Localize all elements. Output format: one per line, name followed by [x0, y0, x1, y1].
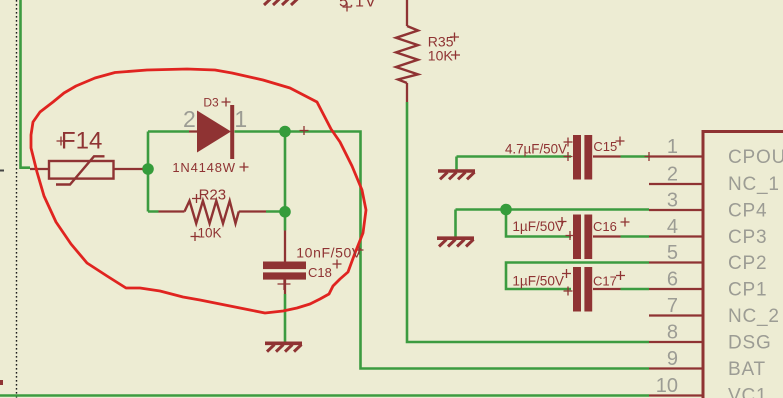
svg-text:CPOUT: CPOUT — [728, 147, 783, 168]
svg-text:C16: C16 — [593, 219, 617, 234]
svg-text:5.1V: 5.1V — [339, 0, 377, 10]
svg-text:BAT: BAT — [728, 359, 766, 380]
svg-text:C17: C17 — [593, 273, 617, 288]
svg-text:9: 9 — [667, 348, 678, 370]
svg-text:1µF/50V: 1µF/50V — [512, 219, 564, 234]
svg-text:1N4148W: 1N4148W — [172, 160, 235, 175]
svg-text:CP3: CP3 — [728, 227, 767, 248]
svg-text:10K: 10K — [198, 226, 222, 241]
svg-text:NC_2: NC_2 — [728, 306, 780, 327]
svg-text:C18: C18 — [308, 265, 332, 280]
svg-text:7: 7 — [667, 295, 678, 317]
svg-text:DSG: DSG — [728, 333, 772, 354]
svg-text:1: 1 — [234, 106, 247, 132]
svg-text:D3: D3 — [203, 96, 219, 110]
svg-text:10nF/50V: 10nF/50V — [296, 244, 362, 260]
svg-text:R23: R23 — [199, 187, 227, 204]
svg-text:8: 8 — [667, 322, 678, 344]
svg-text:F14: F14 — [61, 128, 102, 155]
svg-text:6: 6 — [667, 269, 678, 291]
svg-text:CP1: CP1 — [728, 280, 767, 301]
svg-text:3: 3 — [667, 190, 678, 212]
svg-text:5: 5 — [667, 242, 678, 264]
svg-text:CP4: CP4 — [728, 201, 767, 222]
svg-text:4: 4 — [667, 216, 678, 238]
svg-text:C15: C15 — [593, 139, 617, 154]
svg-text:CP2: CP2 — [728, 253, 767, 274]
svg-text:4.7µF/50V: 4.7µF/50V — [505, 142, 567, 157]
svg-text:10: 10 — [656, 375, 678, 397]
svg-text:VC1: VC1 — [728, 386, 767, 398]
svg-text:1µF/50V: 1µF/50V — [512, 273, 564, 288]
svg-text:10K: 10K — [428, 47, 454, 63]
svg-text:NC_1: NC_1 — [728, 174, 780, 195]
svg-text:2: 2 — [183, 106, 196, 132]
svg-text:2: 2 — [667, 164, 678, 186]
svg-text:1: 1 — [667, 136, 678, 158]
